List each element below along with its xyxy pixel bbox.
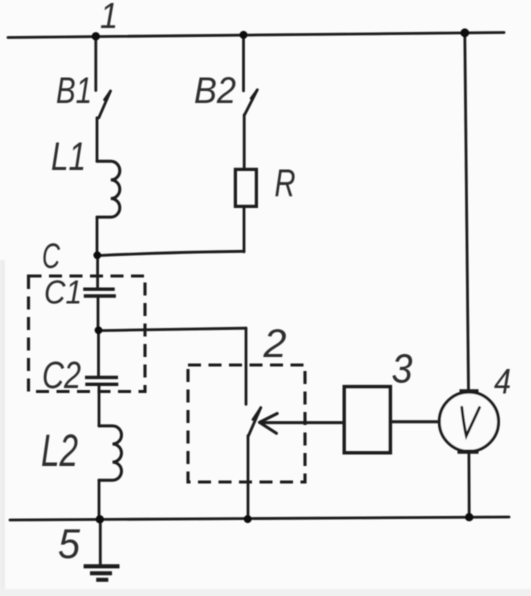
block 3 (344, 387, 390, 453)
junction dot node 5 right (465, 513, 473, 521)
wire voltmeter to bottom bus (467, 452, 470, 518)
svg-text:B1: B1 (56, 70, 92, 111)
wire switch 2 to node (247, 436, 250, 520)
svg-text:C2: C2 (42, 355, 81, 397)
voltmeter V glyph (462, 407, 480, 436)
inductor L2 (99, 426, 122, 480)
scan edge shading bottom (0, 589, 531, 596)
wire B2 to R (243, 115, 246, 169)
svg-text:4: 4 (494, 363, 511, 402)
wire B1 to L1 (96, 118, 99, 162)
wire node C to C1 (96, 255, 99, 287)
junction dot top right (460, 28, 469, 37)
ground bar 1 (84, 564, 120, 568)
control arrow head (260, 414, 278, 434)
svg-text:2: 2 (262, 322, 286, 366)
junction dot top branch 2 (240, 31, 248, 39)
svg-text:L2: L2 (41, 425, 78, 476)
wire mid node to switch 2 (99, 328, 247, 330)
wire top bus (node 1) (8, 33, 504, 38)
wire branch 2 top (242, 35, 245, 91)
ground bar 3 (96, 578, 108, 582)
junction dot node C (93, 251, 101, 259)
wire L2 to node 5 (98, 480, 101, 519)
switch 2 arrow barb (253, 408, 261, 420)
svg-text:C1: C1 (44, 274, 82, 311)
junction dot node 5 mid (244, 515, 252, 523)
svg-text:3: 3 (392, 346, 413, 392)
svg-text:C: C (42, 237, 61, 276)
switch B2 arrow barb (251, 90, 257, 99)
wire bottom bus (node 5) (10, 517, 509, 520)
wire C2 to L2 (98, 386, 101, 426)
junction dot C1-C2 mid (95, 326, 103, 334)
switch 2 blade (249, 408, 261, 436)
wire node C to R bottom (97, 251, 244, 255)
wire mid node to C2 (97, 330, 100, 375)
ground bar 2 (90, 571, 112, 575)
svg-text:5: 5 (58, 520, 81, 567)
svg-text:L1: L1 (51, 135, 86, 179)
wire block 3 to voltmeter (391, 420, 440, 423)
capacitor C2 (85, 377, 118, 384)
resistor R (235, 169, 256, 206)
svg-text:1: 1 (100, 0, 118, 36)
voltmeter top tangent mark (460, 389, 479, 393)
capacitor C1 (83, 289, 116, 296)
wire R to bottom corner (243, 207, 246, 252)
node 1 junction dot (92, 32, 100, 40)
wire left branch top (94, 36, 97, 91)
scan edge shading left (0, 260, 5, 596)
wire L1 to node C (96, 217, 99, 255)
switch B1 blade (99, 91, 111, 118)
inductor L1 (97, 161, 120, 217)
dashed block C (29, 276, 146, 392)
wire right bus upper (465, 33, 469, 392)
junction dot node 5 left (96, 515, 104, 523)
switch B1 arrow barb (104, 91, 110, 100)
wire switch-2 vertical top (245, 328, 248, 404)
svg-text:B2: B2 (194, 70, 236, 111)
switch B2 blade (245, 90, 258, 115)
ground stem (99, 519, 102, 564)
wire C1 to mid node (97, 298, 100, 331)
control arrow shaft (263, 421, 343, 424)
svg-text:R: R (275, 162, 296, 205)
voltmeter circle U4 (439, 392, 498, 451)
voltmeter bottom tangent mark (458, 450, 479, 454)
dashed block 2 (188, 365, 305, 482)
